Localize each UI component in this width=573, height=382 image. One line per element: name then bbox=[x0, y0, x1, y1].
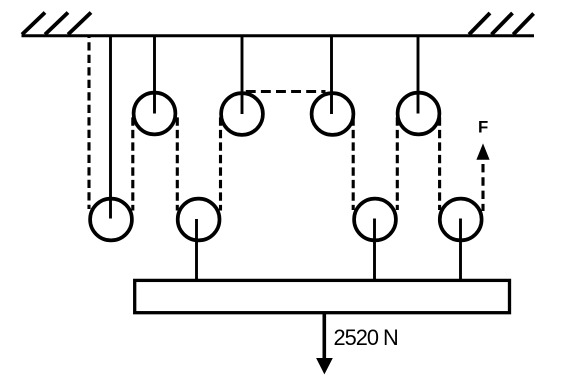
svg-text:F: F bbox=[478, 118, 488, 137]
svg-text:2520 N: 2520 N bbox=[334, 325, 398, 350]
